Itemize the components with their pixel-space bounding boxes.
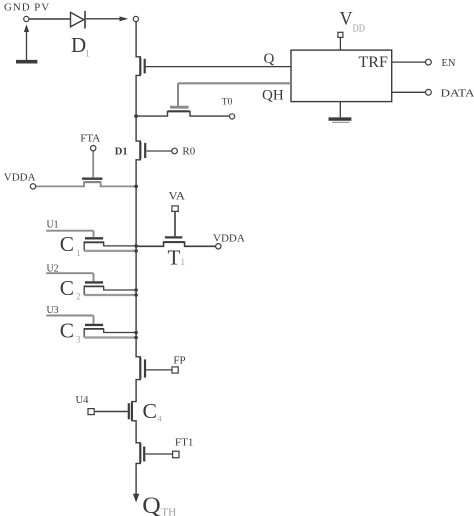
svg-text:4: 4 (157, 413, 162, 423)
svg-text:U1: U1 (47, 219, 59, 230)
svg-text:1: 1 (76, 248, 81, 258)
svg-text:C: C (60, 276, 74, 300)
svg-text:1: 1 (85, 49, 90, 59)
svg-text:Q: Q (142, 493, 161, 516)
svg-text:D1: D1 (115, 147, 128, 158)
svg-text:VDDA: VDDA (213, 233, 245, 245)
svg-text:R0: R0 (182, 145, 195, 157)
svg-text:C: C (143, 399, 158, 423)
svg-text:VA: VA (169, 190, 186, 202)
svg-text:2: 2 (76, 292, 81, 302)
svg-text:FP: FP (173, 356, 185, 367)
svg-text:FT1: FT1 (175, 438, 194, 449)
svg-text:GND PV: GND PV (4, 2, 50, 14)
svg-text:1: 1 (181, 257, 186, 267)
svg-text:D: D (71, 33, 86, 57)
svg-text:U2: U2 (47, 264, 59, 275)
svg-text:DATA: DATA (441, 88, 474, 100)
svg-text:EN: EN (442, 58, 456, 69)
svg-text:T0: T0 (222, 98, 233, 108)
svg-text:DD: DD (353, 24, 366, 35)
svg-text:FTA: FTA (80, 132, 100, 144)
svg-text:Q: Q (264, 51, 275, 67)
svg-text:U3: U3 (47, 305, 59, 316)
svg-text:C: C (60, 232, 74, 256)
svg-text:T: T (168, 246, 181, 270)
svg-text:TH: TH (161, 507, 176, 516)
svg-text:QH: QH (262, 87, 284, 103)
svg-text:C: C (60, 319, 74, 343)
svg-text:V: V (340, 9, 353, 30)
svg-text:TRF: TRF (359, 54, 388, 71)
svg-text:VDDA: VDDA (4, 171, 36, 183)
svg-text:3: 3 (76, 334, 81, 344)
svg-text:U4: U4 (76, 394, 89, 406)
